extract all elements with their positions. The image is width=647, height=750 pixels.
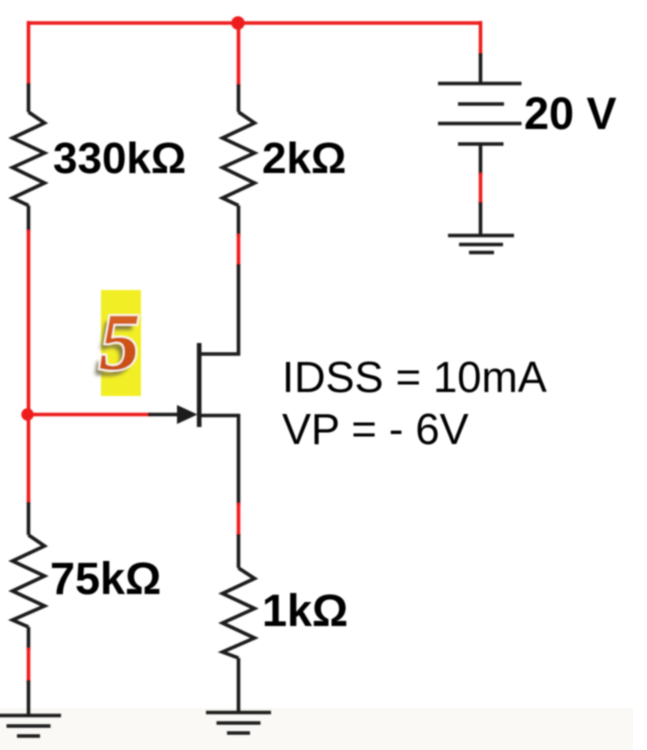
- ground G1 bottom-left: [0, 716, 61, 737]
- ground G3 battery: [448, 236, 514, 253]
- channel bar: [197, 343, 202, 427]
- wire red stub below R3: [27, 648, 31, 682]
- highlight marker 5: [94, 290, 141, 396]
- svg-text:IDSS = 10mA: IDSS = 10mA: [282, 354, 547, 402]
- wire red segment below R2: [237, 234, 241, 266]
- plate short bottom: [458, 142, 504, 146]
- plate short: [458, 102, 504, 106]
- node junction dot top rail: [231, 16, 244, 29]
- gate arrowhead: [177, 405, 198, 424]
- svg-text:1kΩ: 1kΩ: [262, 585, 348, 636]
- resistor R1 330kΩ: [13, 83, 45, 232]
- bottom page band: [0, 708, 633, 750]
- svg-text:5: 5: [99, 296, 140, 387]
- plate long top: [438, 82, 522, 86]
- wire red gate wire: [28, 413, 151, 417]
- wire black lead into ground: [27, 680, 31, 716]
- resistor R3 75kΩ: [13, 502, 45, 650]
- resistor R4 1kΩ: [223, 534, 255, 713]
- svg-text:330kΩ: 330kΩ: [53, 134, 186, 183]
- wire red stub top of R2: [237, 23, 241, 86]
- wire black lead into battery: [479, 53, 483, 84]
- resistor R2 2kΩ: [223, 84, 255, 236]
- svg-text:20 V: 20 V: [524, 88, 617, 139]
- wire black gate lead: [148, 413, 184, 417]
- source lead: [199, 416, 239, 506]
- transistor Q1 n-JFET: [177, 343, 239, 505]
- wire black drain wire down and left: [199, 264, 239, 354]
- node gate junction dot: [21, 408, 33, 420]
- svg-text:2kΩ: 2kΩ: [262, 134, 346, 183]
- wire red segment below source: [237, 503, 241, 536]
- wire right red stub to battery: [479, 21, 483, 55]
- svg-text:VP = - 6V: VP = - 6V: [282, 406, 469, 454]
- ground G2 below R4: [206, 713, 271, 734]
- wire red left branch down to gate node: [27, 230, 31, 504]
- svg-text:75kΩ: 75kΩ: [50, 553, 161, 604]
- wire black lead into battery ground: [479, 202, 483, 236]
- wire black lead below battery: [479, 144, 483, 175]
- battery V1 20V: [438, 53, 522, 175]
- wire left red stub from rail: [27, 21, 31, 85]
- plate long: [438, 122, 522, 126]
- wire top horizontal VCC rail: [27, 21, 482, 25]
- wire red segment below battery: [479, 173, 483, 204]
